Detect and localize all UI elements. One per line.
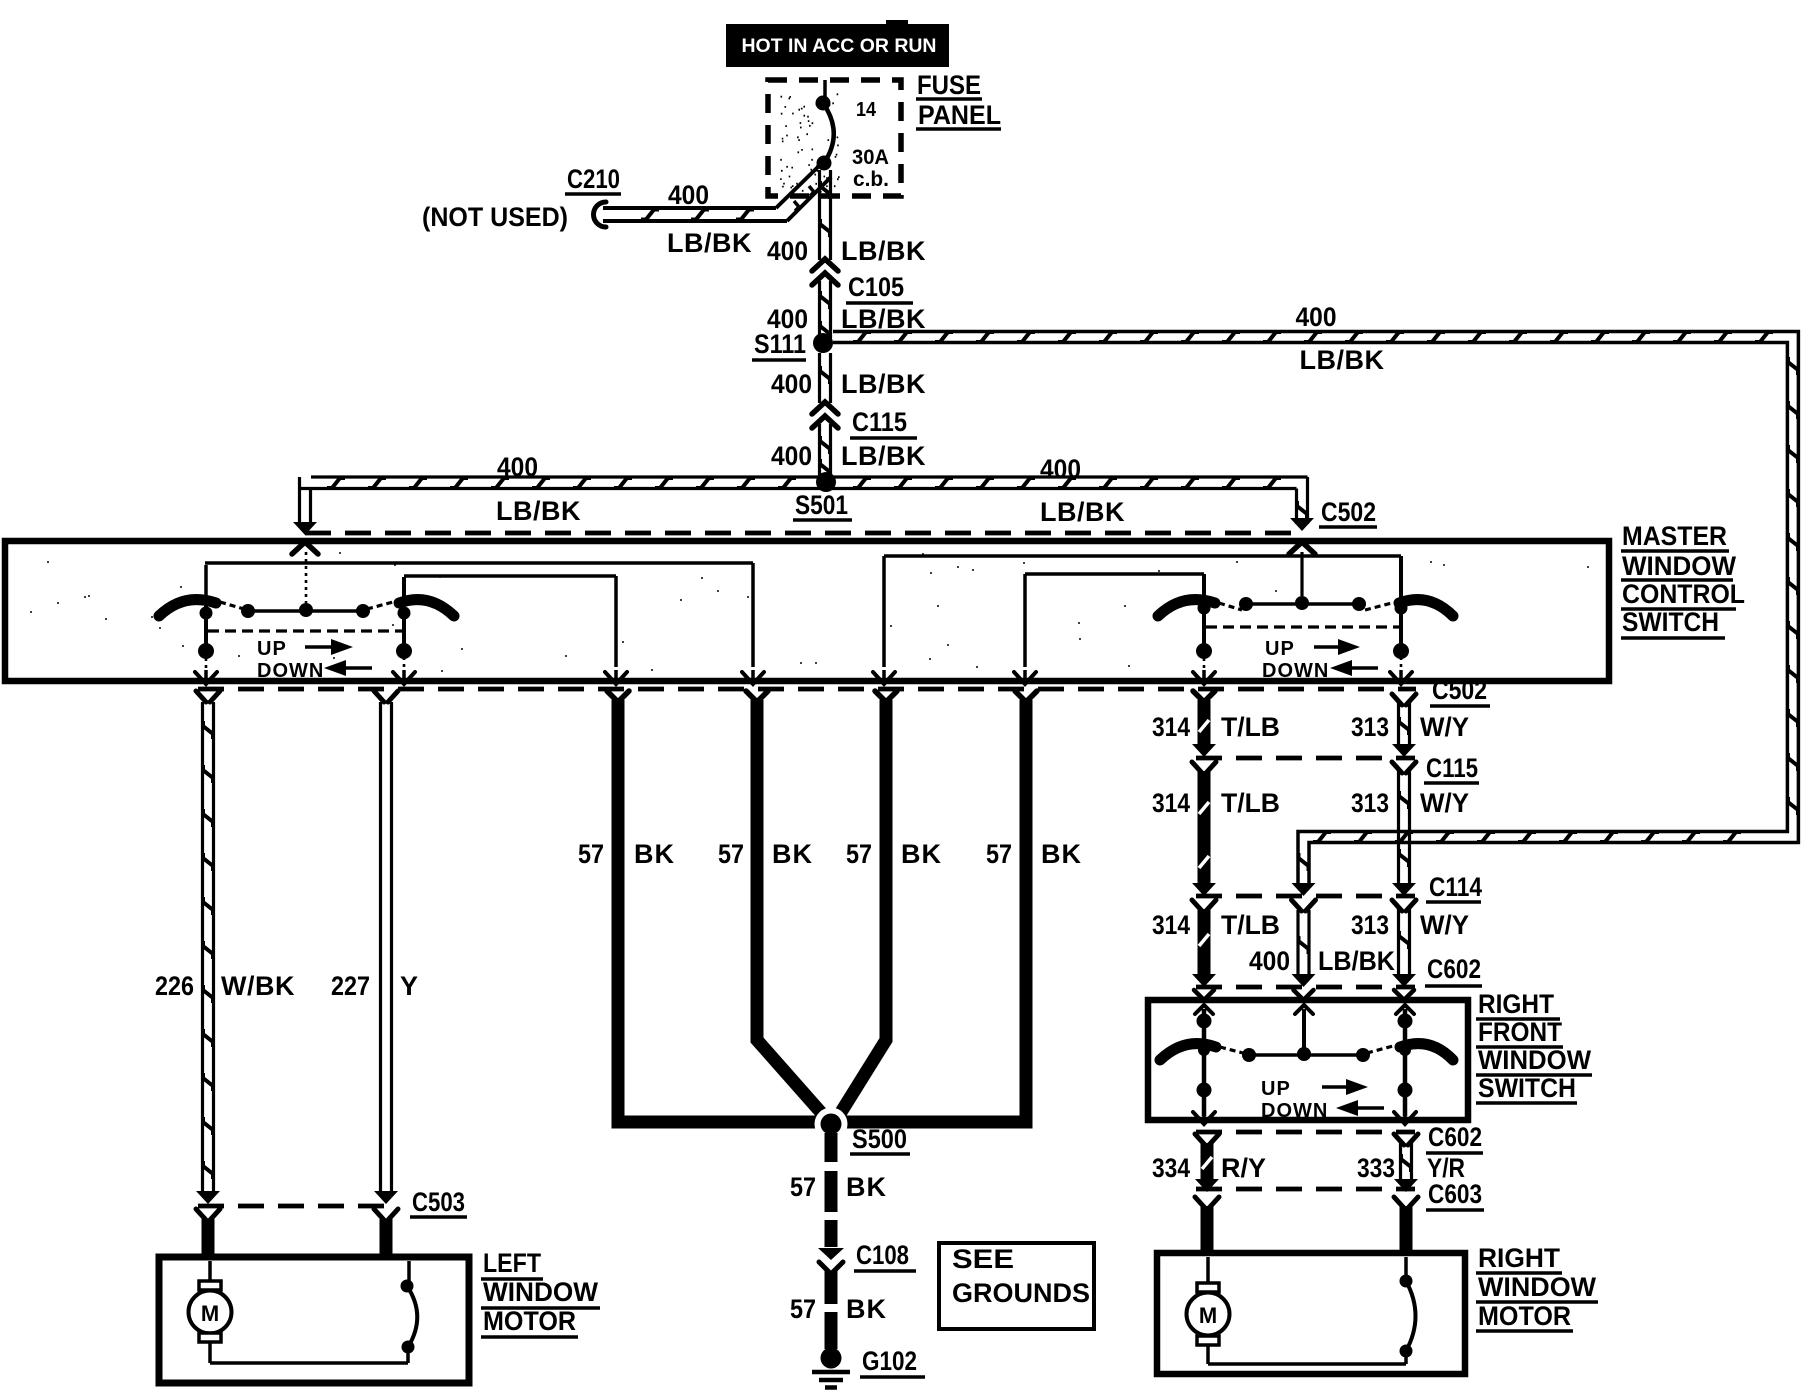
svg-text:BK: BK — [772, 839, 813, 869]
svg-text:400: 400 — [497, 452, 538, 482]
wire 314 T/LB segment 2 — [1192, 762, 1216, 773]
wire C105 to S111 400 LB/BK — [818, 281, 821, 338]
svg-text:400: 400 — [771, 369, 812, 399]
right motor internal wire — [1208, 1362, 1406, 1366]
svg-text:SWITCH: SWITCH — [1478, 1073, 1576, 1103]
svg-text:C210: C210 — [567, 164, 620, 194]
slave switch dashed link right — [1367, 1046, 1393, 1053]
wire S500 to C108 57 BK — [825, 1133, 838, 1162]
svg-text:MASTER: MASTER — [1622, 521, 1727, 551]
fuse panel stipple — [780, 94, 840, 191]
svg-text:S501: S501 — [795, 490, 848, 520]
svg-text:CONTROL: CONTROL — [1622, 579, 1745, 609]
master box stipple — [30, 553, 1589, 671]
svg-text:314: 314 — [1152, 910, 1190, 940]
svg-text:400: 400 — [771, 441, 812, 471]
right switch feed pin — [1289, 542, 1315, 554]
svg-text:14: 14 — [856, 99, 877, 121]
slave feed 400 center into box — [1294, 990, 1314, 998]
circuit breaker 30A c.b. — [823, 80, 827, 98]
svg-text:C502: C502 — [1321, 497, 1376, 527]
wire 313 W/Y segment 2 — [1392, 762, 1416, 773]
wire S501 left drop to master switch — [298, 477, 301, 526]
svg-text:(NOT USED): (NOT USED) — [422, 202, 568, 232]
ground wire 57 BK first bar — [607, 691, 629, 700]
wire 226 W/BK — [196, 691, 220, 702]
splice S501 — [816, 472, 836, 492]
right switch left paddle — [1158, 600, 1215, 616]
svg-text:LB/BK: LB/BK — [841, 441, 926, 471]
svg-text:SWITCH: SWITCH — [1622, 607, 1719, 637]
svg-text:LB/BK: LB/BK — [841, 236, 926, 266]
svg-text:334: 334 — [1152, 1153, 1190, 1183]
svg-text:T/LB: T/LB — [1221, 712, 1280, 742]
svg-text:LB/BK: LB/BK — [841, 304, 926, 334]
svg-text:C114: C114 — [1429, 872, 1482, 902]
right motor M symbol — [1206, 1257, 1210, 1284]
wire 334 R/Y — [1195, 1134, 1219, 1145]
svg-text:BK: BK — [846, 1172, 887, 1202]
svg-text:400: 400 — [1249, 946, 1290, 976]
svg-text:C602: C602 — [1427, 954, 1481, 984]
right switch dashed link right — [1365, 603, 1392, 610]
svg-text:C105: C105 — [848, 272, 904, 302]
left switch contacts — [241, 604, 255, 618]
svg-text:DOWN: DOWN — [1261, 1100, 1328, 1122]
wire 333 Y/R — [1394, 1134, 1418, 1145]
svg-text:313: 313 — [1351, 910, 1389, 940]
svg-text:Y: Y — [400, 971, 419, 1001]
svg-text:400: 400 — [767, 236, 808, 266]
svg-text:C502: C502 — [1432, 675, 1487, 705]
wire 400 LB/BK drop to C114 arrow — [1292, 883, 1316, 896]
right window motor box — [1157, 1253, 1465, 1374]
svg-text:W/Y: W/Y — [1420, 712, 1469, 742]
svg-text:W/Y: W/Y — [1420, 788, 1469, 818]
svg-text:HOT IN ACC OR RUN: HOT IN ACC OR RUN — [742, 35, 937, 57]
svg-text:MOTOR: MOTOR — [1478, 1301, 1571, 1331]
master window control switch box — [5, 541, 1609, 681]
right motor contact arc — [1400, 1345, 1413, 1358]
ground wire 57 BK third bar — [875, 691, 897, 700]
svg-text:RIGHT: RIGHT — [1478, 989, 1554, 1019]
ground wire 57 BK second bar — [746, 691, 768, 700]
right switch coupling dashed — [1206, 625, 1399, 628]
svg-text:W/BK: W/BK — [221, 971, 295, 1001]
svg-text:LB/BK: LB/BK — [667, 228, 752, 258]
wire 314 T/LB segment 3 — [1192, 900, 1216, 911]
svg-text:WINDOW: WINDOW — [1622, 551, 1736, 581]
connector C114 dashed — [1196, 894, 1415, 899]
left motor contact arc — [402, 1341, 415, 1354]
svg-text:T/LB: T/LB — [1221, 788, 1280, 818]
svg-text:LB/BK: LB/BK — [841, 369, 926, 399]
connector C502 dashed line upper — [305, 531, 1302, 536]
svg-text:M: M — [201, 1301, 219, 1326]
wire fuse to C105 400 LB/BK — [818, 170, 821, 260]
fuse panel dashed box — [768, 80, 901, 196]
svg-text:314: 314 — [1152, 788, 1190, 818]
svg-text:30A: 30A — [852, 146, 889, 169]
svg-text:RIGHT: RIGHT — [1478, 1243, 1560, 1273]
svg-text:226: 226 — [155, 971, 194, 1001]
svg-text:400: 400 — [668, 180, 709, 210]
svg-text:WINDOW: WINDOW — [1478, 1045, 1591, 1075]
left switch pivot wire 227 output — [402, 577, 406, 645]
left switch ground link A — [205, 561, 753, 565]
connector C115 right dashed — [1196, 756, 1415, 761]
svg-text:313: 313 — [1351, 712, 1389, 742]
wire C108 to G102 57 BK — [825, 1271, 838, 1304]
svg-text:LEFT: LEFT — [483, 1248, 541, 1278]
svg-text:C115: C115 — [852, 407, 907, 437]
svg-text:MOTOR: MOTOR — [483, 1306, 576, 1336]
svg-text:S500: S500 — [852, 1124, 907, 1154]
svg-text:313: 313 — [1351, 788, 1389, 818]
splice S500 — [815, 1108, 848, 1141]
svg-text:LB/BK: LB/BK — [1040, 497, 1125, 527]
svg-text:UP: UP — [1265, 638, 1295, 660]
connector C503 dashed — [198, 1204, 398, 1209]
wire 313 W/Y segment 3 — [1392, 900, 1416, 911]
right switch pivot wire 314 output — [1202, 574, 1206, 646]
connector C105 — [812, 259, 838, 271]
svg-text:314: 314 — [1152, 712, 1190, 742]
svg-text:c.b.: c.b. — [853, 168, 889, 191]
svg-text:LB/BK: LB/BK — [1300, 345, 1385, 375]
svg-text:WINDOW: WINDOW — [483, 1277, 599, 1307]
svg-text:DOWN: DOWN — [1262, 660, 1329, 682]
wire C115 to S501 400 LB/BK — [818, 424, 821, 478]
svg-text:DOWN: DOWN — [257, 660, 324, 682]
svg-text:57: 57 — [790, 1172, 816, 1202]
wire S501 horizontal 400 LB/BK — [311, 475, 1308, 478]
connector C603 dashed — [1196, 1187, 1415, 1192]
svg-text:400: 400 — [1040, 454, 1081, 484]
slave feed 313 into box — [1394, 990, 1414, 998]
svg-text:LB/BK: LB/BK — [1318, 946, 1395, 976]
svg-text:C602: C602 — [1428, 1122, 1482, 1152]
wire 227 Y — [374, 691, 398, 702]
wire 400 LB/BK C114 to C602 — [1292, 900, 1316, 911]
right switch dashed link left — [1219, 603, 1242, 610]
left switch feed pin — [292, 542, 318, 554]
left switch left paddle — [159, 600, 216, 616]
wire stubs into right motor — [1195, 1197, 1219, 1208]
connector C108 — [818, 1248, 844, 1260]
long wire S111 to right edge to C114 400 LB/BK — [833, 332, 1798, 889]
right switch ground link A — [884, 554, 1401, 558]
svg-text:227: 227 — [331, 971, 370, 1001]
wire stubs into left motor — [202, 1219, 215, 1258]
left switch dashed contact link right — [367, 602, 393, 609]
left switch right paddle — [399, 600, 454, 616]
svg-text:WINDOW: WINDOW — [1478, 1272, 1597, 1302]
connector C602 dashed lower — [1196, 1130, 1415, 1135]
right switch contacts — [1239, 597, 1253, 611]
slave feed 314 into box — [1194, 990, 1214, 998]
left motor M symbol — [208, 1261, 212, 1282]
right switch right paddle — [1399, 600, 1453, 616]
svg-text:LB/BK: LB/BK — [496, 496, 581, 526]
left switch ground link B — [404, 574, 616, 578]
connector C115 center — [812, 402, 838, 414]
svg-text:GROUNDS: GROUNDS — [952, 1278, 1090, 1308]
splice S111 — [813, 333, 833, 353]
connector C502 dashed line lower — [198, 687, 1416, 692]
left motor internal wire — [210, 1361, 408, 1365]
svg-text:57: 57 — [846, 839, 872, 869]
svg-text:G102: G102 — [862, 1346, 917, 1376]
svg-text:R/Y: R/Y — [1221, 1153, 1266, 1183]
left switch pivot wire 226 output — [204, 565, 208, 601]
ground wire 57 BK fourth bar — [1015, 691, 1037, 700]
svg-text:BK: BK — [1041, 839, 1082, 869]
wire S111 to C115 400 LB/BK — [818, 353, 821, 403]
svg-text:FUSE: FUSE — [917, 70, 981, 100]
svg-text:SEE: SEE — [952, 1244, 1014, 1274]
wire S501 right drop to C502 — [1306, 477, 1309, 524]
banner HOT IN ACC OR RUN — [726, 24, 949, 67]
svg-text:UP: UP — [1261, 1078, 1291, 1100]
svg-text:FRONT: FRONT — [1478, 1017, 1562, 1047]
svg-text:C503: C503 — [412, 1187, 465, 1217]
svg-text:M: M — [1199, 1303, 1217, 1328]
svg-text:C115: C115 — [1426, 753, 1478, 783]
slave switch contacts — [1242, 1048, 1256, 1062]
svg-text:C108: C108 — [856, 1240, 909, 1270]
svg-text:C603: C603 — [1428, 1179, 1482, 1209]
right switch ground link B — [1025, 572, 1204, 576]
left window motor box — [159, 1257, 469, 1383]
slave switch left paddle — [1160, 1044, 1216, 1060]
ground G102 — [821, 1348, 842, 1369]
svg-text:T/LB: T/LB — [1221, 910, 1280, 940]
svg-text:BK: BK — [901, 839, 942, 869]
wire 313 W/Y segment 1 — [1392, 694, 1416, 705]
left switch coupling dashed — [208, 629, 402, 632]
svg-text:400: 400 — [1296, 302, 1337, 332]
slave switch right paddle — [1400, 1044, 1453, 1060]
wire 314 T/LB segment 1 — [1193, 691, 1215, 700]
slave switch dashed link left — [1220, 1047, 1243, 1053]
right switch pivot wire 313 output — [1399, 556, 1403, 646]
svg-text:PANEL: PANEL — [918, 100, 1001, 130]
svg-text:BK: BK — [846, 1294, 887, 1324]
SEE GROUNDS box — [939, 1243, 1094, 1329]
svg-text:57: 57 — [790, 1294, 816, 1324]
svg-text:57: 57 — [578, 839, 604, 869]
connector C602 dashed upper — [1196, 985, 1415, 990]
svg-text:333: 333 — [1357, 1153, 1395, 1183]
svg-text:S111: S111 — [754, 329, 806, 359]
right front window switch box — [1148, 1000, 1468, 1120]
svg-text:57: 57 — [718, 839, 744, 869]
svg-text:W/Y: W/Y — [1420, 910, 1469, 940]
svg-text:57: 57 — [986, 839, 1012, 869]
svg-text:UP: UP — [257, 638, 287, 660]
connector C210 (not used) wire 400 LB/BK — [594, 202, 607, 227]
svg-text:BK: BK — [634, 839, 675, 869]
left switch dashed contact link left — [220, 602, 244, 609]
